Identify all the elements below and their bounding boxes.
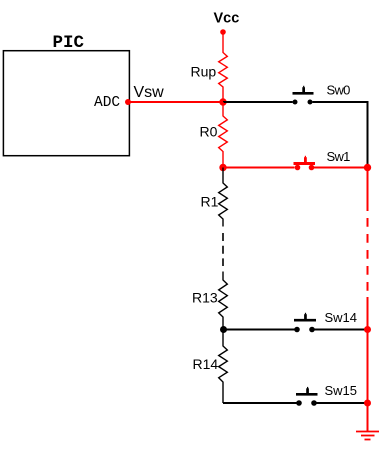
wire junction to Sw0 (black) (223, 101, 293, 103)
switch Sw1 (closed pushbutton, red) (294, 149, 351, 170)
svg-text:Sw1: Sw1 (327, 149, 351, 164)
svg-text:R1: R1 (201, 194, 219, 210)
wire Sw0 to rail and down (black) (313, 102, 368, 164)
wire ladder dashed segment (black) (222, 233, 224, 266)
resistor R0 (200, 102, 228, 168)
ground (red) (356, 432, 379, 440)
resistor R14 (193, 330, 228, 404)
switch Sw15 (open pushbutton) (296, 383, 357, 406)
svg-text:Sw0: Sw0 (327, 83, 351, 98)
svg-text:R0: R0 (200, 124, 218, 140)
svg-text:R13: R13 (192, 290, 218, 306)
wire junction to Sw1 (red) (223, 167, 295, 169)
svg-text:Vsw: Vsw (134, 84, 165, 101)
resistor Rup (191, 32, 228, 102)
svg-text:PIC: PIC (53, 33, 85, 53)
switch Sw0 (open pushbutton) (293, 83, 351, 105)
svg-text:Vcc: Vcc (214, 11, 240, 27)
node junction rail/Sw14 (364, 326, 371, 333)
node junction R0/Sw1 (219, 164, 226, 171)
wire rail solid below Sw1 (red) (367, 168, 369, 212)
node junction rail/Sw1 (364, 164, 371, 171)
wire ladder to Sw15 (black) (223, 402, 297, 404)
node junction rail/Sw15 (364, 400, 371, 407)
wire junction to Sw14 (black) (223, 329, 295, 331)
wire Sw1 to rail (red) (314, 167, 368, 169)
wire rail dashed segment (red) (367, 218, 369, 291)
PIC microcontroller U1 (3, 33, 129, 156)
svg-text:R14: R14 (193, 356, 219, 372)
node junction Vsw/Rup/R0/Sw0 (219, 98, 226, 105)
svg-text:Sw14: Sw14 (325, 310, 358, 325)
resistor R1 (201, 168, 228, 227)
wire Sw14 to rail (black) (315, 329, 367, 331)
svg-text:ADC: ADC (94, 95, 120, 111)
svg-text:Sw15: Sw15 (325, 383, 358, 398)
wire ADC to ladder (red) (129, 101, 224, 103)
switch Sw14 (open pushbutton) (294, 310, 357, 332)
node ADC pin dot (125, 99, 131, 105)
wire rail solid to bottom (red) (367, 297, 369, 431)
resistor R13 (192, 272, 227, 330)
node junction R13/R14/Sw14 (black) (220, 326, 227, 333)
node Vcc dot (220, 29, 226, 35)
svg-text:Rup: Rup (191, 64, 217, 80)
wire Sw15 to rail (black) (317, 402, 367, 404)
